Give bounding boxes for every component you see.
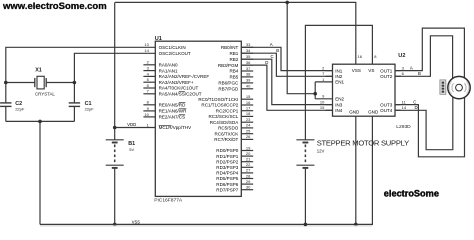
svg-text:RD7/PSP7: RD7/PSP7: [216, 187, 238, 192]
svg-text:RE0/AN5/RD: RE0/AN5/RD: [159, 103, 187, 108]
svg-text:40: 40: [246, 84, 251, 89]
svg-text:1: 1: [322, 77, 325, 82]
svg-text:RC1/T1OSI/CCP2: RC1/T1OSI/CCP2: [201, 103, 238, 108]
svg-text:28: 28: [246, 173, 251, 178]
svg-text:39: 39: [246, 78, 251, 83]
svg-text:X1: X1: [35, 68, 42, 74]
svg-text:IN1: IN1: [335, 68, 343, 73]
svg-text:VSS: VSS: [132, 219, 140, 224]
svg-text:14: 14: [144, 48, 149, 53]
svg-text:16: 16: [246, 100, 251, 105]
svg-text:29: 29: [246, 179, 251, 184]
svg-text:VS: VS: [368, 68, 374, 73]
svg-text:RE1/AN6/WR: RE1/AN6/WR: [159, 109, 188, 114]
svg-text:16: 16: [358, 54, 363, 59]
svg-text:35: 35: [246, 54, 251, 59]
svg-text:22: 22: [246, 162, 251, 167]
svg-text:8: 8: [374, 54, 377, 59]
svg-text:OUT4: OUT4: [380, 108, 393, 113]
svg-text:RB0/INT: RB0/INT: [221, 45, 239, 50]
svg-text:RA3/AN3/VREF+: RA3/AN3/VREF+: [159, 80, 194, 85]
svg-text:RD4/PSP4: RD4/PSP4: [216, 171, 238, 176]
svg-text:RD5/PSP5: RD5/PSP5: [216, 176, 238, 181]
svg-text:27: 27: [246, 168, 251, 173]
svg-text:RE2/AN7/CS: RE2/AN7/CS: [159, 115, 186, 120]
svg-text:RA2/AN2/VREF-/CVREF: RA2/AN2/VREF-/CVREF: [159, 74, 210, 79]
svg-text:IN3: IN3: [335, 102, 343, 107]
svg-text:OUT1: OUT1: [380, 68, 393, 73]
svg-text:RD0/PSP0: RD0/PSP0: [216, 148, 238, 153]
svg-text:11: 11: [402, 99, 407, 104]
svg-text:RB4: RB4: [229, 69, 238, 74]
svg-text:13: 13: [144, 42, 149, 47]
svg-text:RB1: RB1: [229, 51, 238, 56]
svg-text:3: 3: [402, 65, 405, 70]
svg-text:RD1/PSP1: RD1/PSP1: [216, 154, 238, 159]
svg-text:C: C: [413, 99, 416, 104]
svg-text:A: A: [410, 65, 413, 70]
svg-text:15: 15: [320, 105, 325, 110]
svg-text:RA0/AN0: RA0/AN0: [159, 63, 178, 68]
svg-text:RC2/CCP1: RC2/CCP1: [216, 108, 239, 113]
svg-text:U1: U1: [155, 36, 162, 42]
svg-text:www.electroSome.com: www.electroSome.com: [2, 1, 107, 12]
svg-text:RC7/RX/DT: RC7/RX/DT: [214, 137, 238, 142]
svg-text:RA4/T0CKI/C1OUT: RA4/T0CKI/C1OUT: [159, 86, 199, 91]
svg-text:VSS: VSS: [352, 68, 361, 73]
svg-text:22pF: 22pF: [15, 106, 25, 111]
svg-text:17: 17: [246, 106, 251, 111]
svg-text:RB3/PGM: RB3/PGM: [218, 63, 239, 68]
svg-text:B: B: [276, 48, 279, 53]
svg-text:6: 6: [147, 83, 150, 88]
svg-text:4: 4: [147, 71, 150, 76]
svg-text:37: 37: [246, 66, 251, 71]
svg-text:19: 19: [246, 145, 251, 150]
svg-text:7: 7: [322, 71, 325, 76]
svg-text:20: 20: [246, 151, 251, 156]
svg-text:RB6/PGC: RB6/PGC: [218, 81, 239, 86]
svg-text:10: 10: [320, 100, 325, 105]
svg-text:OUT3: OUT3: [380, 102, 393, 107]
svg-text:RD3/PSP3: RD3/PSP3: [216, 165, 238, 170]
svg-text:23: 23: [246, 117, 251, 122]
svg-text:B: B: [418, 71, 421, 76]
svg-text:IN2: IN2: [335, 74, 343, 79]
svg-text:EN1: EN1: [335, 80, 344, 85]
svg-text:34: 34: [246, 48, 251, 53]
svg-text:D: D: [415, 105, 418, 110]
svg-text:RB2: RB2: [229, 57, 238, 62]
svg-text:VDD: VDD: [127, 122, 136, 127]
svg-text:15: 15: [246, 94, 251, 99]
svg-text:9: 9: [147, 106, 150, 111]
svg-text:21: 21: [246, 157, 251, 162]
svg-text:STEPPER MOTOR SUPPLY: STEPPER MOTOR SUPPLY: [317, 139, 409, 148]
svg-text:10: 10: [144, 112, 149, 117]
svg-text:RA1/AN1: RA1/AN1: [159, 68, 178, 73]
svg-text:RB5: RB5: [229, 75, 238, 80]
svg-text:RD6/PSP6: RD6/PSP6: [216, 182, 238, 187]
svg-text:22pF: 22pF: [85, 106, 95, 111]
svg-text:25: 25: [246, 129, 251, 134]
svg-text:18: 18: [246, 111, 251, 116]
svg-text:IN4: IN4: [335, 108, 343, 113]
svg-text:RC5/SDO: RC5/SDO: [218, 126, 239, 131]
svg-text:PIC16F877A: PIC16F877A: [154, 198, 183, 204]
svg-text:RD2/PSP2: RD2/PSP2: [216, 159, 238, 164]
svg-text:CRYSTAL: CRYSTAL: [35, 91, 55, 96]
svg-text:5V: 5V: [129, 147, 134, 152]
svg-text:3: 3: [147, 66, 150, 71]
svg-text:5: 5: [147, 77, 150, 82]
svg-text:24: 24: [246, 123, 251, 128]
svg-text:7: 7: [147, 89, 150, 94]
svg-text:GND: GND: [368, 110, 379, 115]
svg-text:RC6/TX/CK: RC6/TX/CK: [215, 131, 239, 136]
svg-text:MCLR/Vpp/THV: MCLR/Vpp/THV: [159, 125, 193, 130]
svg-text:RB7/PGD: RB7/PGD: [218, 87, 239, 92]
svg-text:RC3/SCK/SCL: RC3/SCK/SCL: [208, 114, 238, 119]
svg-text:RC4/SDI/SDA: RC4/SDI/SDA: [210, 120, 240, 125]
svg-text:electroSome: electroSome: [384, 189, 439, 199]
svg-text:GND: GND: [349, 110, 360, 115]
svg-text:D: D: [265, 60, 268, 65]
svg-text:B1: B1: [128, 141, 135, 147]
svg-text:L293D: L293D: [396, 124, 411, 130]
svg-text:38: 38: [246, 72, 251, 77]
svg-text:12V: 12V: [317, 149, 325, 154]
svg-text:OSC2/CLKOUT: OSC2/CLKOUT: [159, 51, 191, 56]
svg-text:30: 30: [246, 185, 251, 190]
svg-text:RA5/AN4/SS/C2OUT: RA5/AN4/SS/C2OUT: [159, 92, 202, 97]
svg-text:6: 6: [402, 71, 405, 76]
svg-text:A: A: [270, 42, 273, 47]
svg-text:EN2: EN2: [335, 97, 344, 102]
svg-text:36: 36: [246, 60, 251, 65]
svg-text:2: 2: [322, 66, 325, 71]
svg-text:26: 26: [246, 134, 251, 139]
svg-text:1: 1: [147, 122, 150, 127]
svg-text:U2: U2: [398, 53, 405, 59]
svg-text:33: 33: [246, 42, 251, 47]
svg-text:9: 9: [322, 94, 325, 99]
svg-text:2: 2: [147, 60, 150, 65]
svg-text:OSC1/CLKIN: OSC1/CLKIN: [159, 45, 186, 50]
svg-text:8: 8: [147, 100, 150, 105]
svg-text:14: 14: [402, 105, 407, 110]
svg-text:C: C: [271, 54, 274, 59]
svg-text:RC0/T1OSO/T1CKI: RC0/T1OSO/T1CKI: [198, 97, 238, 102]
svg-text:OUT2: OUT2: [380, 74, 393, 79]
